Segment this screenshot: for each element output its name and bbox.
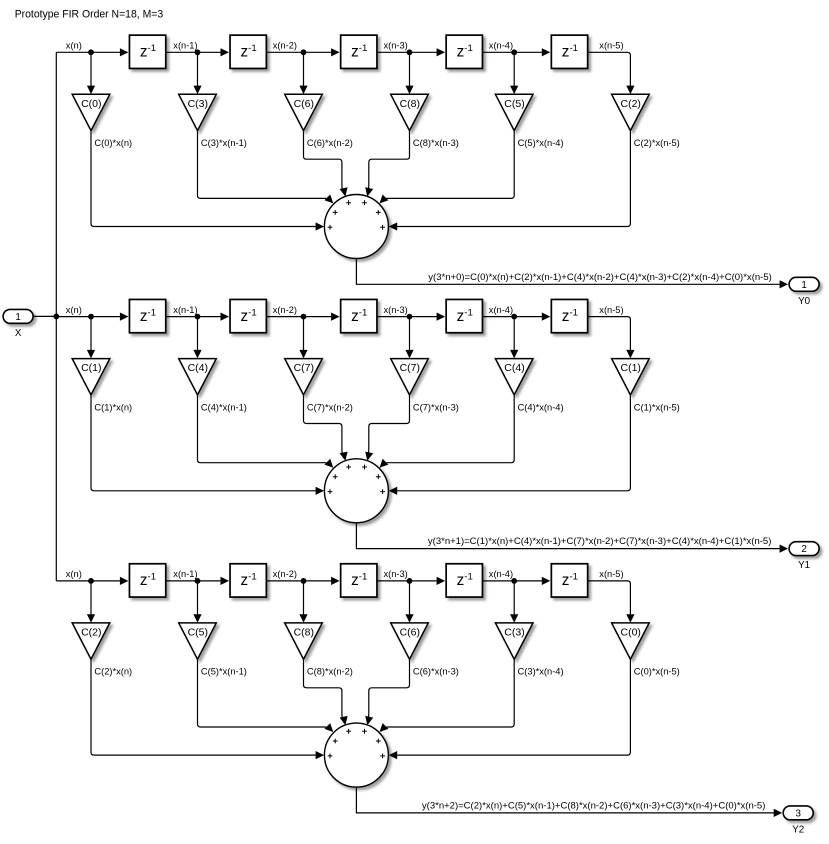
node x(n-1) tap row1 bbox=[195, 49, 201, 55]
node x(n) tap row1 bbox=[88, 49, 94, 55]
svg-text:C(8): C(8) bbox=[400, 98, 420, 110]
svg-text:y(3*n+2)=C(2)*x(n)+C(5)*x(n-1): y(3*n+2)=C(2)*x(n)+C(5)*x(n-1)+C(8)*x(n-… bbox=[422, 800, 766, 810]
svg-text:C(5)*x(n-4): C(5)*x(n-4) bbox=[518, 138, 564, 148]
gain triangle C(1) row2 bbox=[72, 359, 110, 395]
svg-text:C(4)*x(n-4): C(4)*x(n-4) bbox=[518, 402, 564, 412]
wire: row1 tap down into gain C(0) bbox=[87, 52, 95, 94]
svg-text:C(5): C(5) bbox=[188, 627, 208, 639]
gain triangle C(0) row1 bbox=[72, 94, 110, 130]
wire: row1 delay Z4 output to delay Z5 bbox=[483, 48, 551, 56]
svg-text:x(n-3): x(n-3) bbox=[384, 569, 408, 579]
wire: row3 tap down into gain C(3) bbox=[510, 581, 518, 623]
delay block z^-1 #1 row3 bbox=[129, 564, 165, 597]
svg-text:C(3): C(3) bbox=[504, 627, 524, 639]
wire: row2 delay Z2 output to delay Z3 bbox=[266, 313, 339, 321]
svg-text:C(5)*x(n-1): C(5)*x(n-1) bbox=[201, 667, 247, 677]
wire: row1 source line into delay Z1 bbox=[56, 48, 128, 56]
svg-text:x(n-3): x(n-3) bbox=[384, 41, 408, 51]
svg-text:C(0): C(0) bbox=[81, 98, 101, 110]
svg-text:C(4): C(4) bbox=[188, 362, 208, 374]
svg-text:C(1): C(1) bbox=[81, 362, 101, 374]
svg-text:C(3): C(3) bbox=[188, 98, 208, 110]
wire: row1 delay Z2 output to delay Z3 bbox=[266, 48, 339, 56]
wire: gain C(6) output to sum (top-right) row3 bbox=[365, 659, 409, 725]
svg-text:C(2)*x(n): C(2)*x(n) bbox=[94, 667, 132, 677]
delay block z^-1 #4 row3 bbox=[446, 564, 482, 597]
delay block z^-1 #5 row3 bbox=[551, 564, 587, 597]
gain triangle C(7) row2 bbox=[285, 359, 323, 395]
node x(n-3) tap row3 bbox=[407, 578, 413, 584]
wire: gain C(2) output to sum (left horizontal) row3 bbox=[91, 659, 324, 759]
wire: gain C(7) output to sum (top-right) row2 bbox=[365, 395, 409, 461]
wire: gain C(4) output to sum (upper-right diagonal) row2 bbox=[380, 395, 515, 468]
svg-text:x(n): x(n) bbox=[66, 569, 82, 579]
svg-text:x(n-5): x(n-5) bbox=[599, 41, 623, 51]
delay block z^-1 #1 row1 bbox=[129, 35, 165, 68]
svg-text:3: 3 bbox=[795, 808, 801, 819]
wire: row3 source line into delay Z1 bbox=[56, 577, 128, 585]
sum block S1 bbox=[324, 195, 388, 259]
wire: gain C(6) output to sum (top-left) row1 bbox=[304, 131, 348, 197]
wire: row2 delay Z5 output elbow down to gain C(1) bbox=[588, 317, 635, 359]
svg-text:Y0: Y0 bbox=[798, 296, 811, 307]
outport 3 (Y2) bbox=[783, 806, 813, 820]
delay block z^-1 #3 row1 bbox=[341, 35, 377, 68]
gain triangle C(6) row1 bbox=[285, 94, 323, 130]
svg-text:x(n-1): x(n-1) bbox=[173, 569, 197, 579]
wire: row2 tap down into gain C(1) bbox=[87, 317, 95, 359]
svg-text:x(n-5): x(n-5) bbox=[599, 305, 623, 315]
wire: row2 tap down into gain C(7) bbox=[405, 317, 413, 359]
wire: row1 delay Z3 output to delay Z4 bbox=[377, 48, 445, 56]
svg-text:C(2): C(2) bbox=[620, 98, 640, 110]
wire: row3 delay Z2 output to delay Z3 bbox=[266, 577, 339, 585]
wire: gain C(7) output to sum (top-left) row2 bbox=[304, 395, 348, 461]
wire: row3 tap down into gain C(2) bbox=[87, 581, 95, 623]
node x(n-3) tap row1 bbox=[407, 49, 413, 55]
delay block z^-1 #2 row2 bbox=[230, 299, 266, 332]
svg-text:Y2: Y2 bbox=[792, 825, 804, 836]
svg-text:x(n-2): x(n-2) bbox=[273, 41, 297, 51]
gain triangle C(0) row3 bbox=[612, 623, 650, 659]
node x(n) tap row2 bbox=[88, 314, 94, 320]
svg-text:x(n): x(n) bbox=[66, 41, 82, 51]
wire: row2 source line into delay Z1 bbox=[56, 313, 128, 321]
wire: row1 delay Z1 output to delay Z2 bbox=[166, 48, 229, 56]
svg-text:C(8)*x(n-3): C(8)*x(n-3) bbox=[413, 138, 459, 148]
wire: row3 tap down into gain C(5) bbox=[193, 581, 201, 623]
svg-text:Y1: Y1 bbox=[798, 560, 810, 571]
svg-text:C(3)*x(n-4): C(3)*x(n-4) bbox=[518, 667, 564, 677]
wire: row3 tap down into gain C(6) bbox=[405, 581, 413, 623]
sum block S3 bbox=[324, 723, 388, 787]
svg-text:C(2)*x(n-5): C(2)*x(n-5) bbox=[634, 138, 680, 148]
sum block S2 bbox=[324, 459, 388, 523]
wire: sum S3 output to outport 3 row3 bbox=[356, 788, 782, 817]
wire: gain C(2) output to sum (right horizontal) row1 bbox=[389, 131, 631, 231]
gain triangle C(4) row2 bbox=[179, 359, 217, 395]
svg-text:C(1)*x(n): C(1)*x(n) bbox=[94, 402, 132, 412]
svg-text:1: 1 bbox=[15, 312, 20, 323]
gain triangle C(5) row3 bbox=[179, 623, 217, 659]
node: bus junction at row2 bbox=[53, 314, 59, 320]
delay block z^-1 #4 row2 bbox=[446, 299, 482, 332]
delay block z^-1 #5 row2 bbox=[551, 299, 587, 332]
svg-text:x(n): x(n) bbox=[66, 305, 82, 315]
outport 1 (Y0) bbox=[789, 277, 819, 291]
wire: row1 tap down into gain C(8) bbox=[405, 52, 413, 94]
wire: row2 tap down into gain C(7) bbox=[299, 317, 307, 359]
svg-text:y(3*n+0)=C(0)*x(n)+C(2)*x(n-1): y(3*n+0)=C(0)*x(n)+C(2)*x(n-1)+C(4)*x(n-… bbox=[428, 272, 772, 282]
svg-text:1: 1 bbox=[801, 280, 806, 291]
gain triangle C(6) row3 bbox=[391, 623, 429, 659]
svg-text:x(n-3): x(n-3) bbox=[384, 305, 408, 315]
svg-text:C(6): C(6) bbox=[400, 627, 420, 639]
gain triangle C(1) row2 bbox=[612, 359, 650, 395]
wire: row2 tap down into gain C(4) bbox=[193, 317, 201, 359]
wire: row1 delay Z5 output elbow down to gain C(2) bbox=[588, 52, 635, 94]
wire: gain C(0) output to sum (left horizontal) row1 bbox=[91, 131, 324, 231]
svg-text:C(8): C(8) bbox=[294, 627, 314, 639]
delay block z^-1 #4 row1 bbox=[446, 35, 482, 68]
delay block z^-1 #1 row2 bbox=[129, 299, 165, 332]
svg-text:X: X bbox=[15, 328, 22, 339]
svg-text:x(n-2): x(n-2) bbox=[273, 569, 297, 579]
delay block z^-1 #2 row3 bbox=[230, 564, 266, 597]
wire: gain C(8) output to sum (top-left) row3 bbox=[304, 659, 348, 725]
wire: vertical source bus bbox=[55, 52, 57, 581]
node x(n-4) tap row1 bbox=[511, 49, 517, 55]
gain triangle C(2) row3 bbox=[72, 623, 110, 659]
svg-text:x(n-1): x(n-1) bbox=[173, 305, 197, 315]
wire: row3 delay Z4 output to delay Z5 bbox=[483, 577, 551, 585]
svg-text:x(n-5): x(n-5) bbox=[599, 569, 623, 579]
wire: row2 delay Z1 output to delay Z2 bbox=[166, 313, 229, 321]
gain triangle C(4) row2 bbox=[495, 359, 533, 395]
svg-text:2: 2 bbox=[801, 544, 806, 555]
svg-text:C(0)*x(n): C(0)*x(n) bbox=[94, 138, 132, 148]
node x(n) tap row3 bbox=[88, 578, 94, 584]
svg-text:C(1)*x(n-5): C(1)*x(n-5) bbox=[634, 402, 680, 412]
wire: row3 tap down into gain C(8) bbox=[299, 581, 307, 623]
node x(n-3) tap row2 bbox=[407, 314, 413, 320]
node x(n-2) tap row1 bbox=[301, 49, 307, 55]
wire: gain C(3) output to sum (upper-left diagonal) row1 bbox=[198, 131, 334, 204]
svg-text:C(4)*x(n-1): C(4)*x(n-1) bbox=[201, 402, 247, 412]
delay block z^-1 #5 row1 bbox=[551, 35, 587, 68]
svg-text:Prototype FIR Order N=18, M=3: Prototype FIR Order N=18, M=3 bbox=[15, 8, 164, 20]
wire: row3 delay Z3 output to delay Z4 bbox=[377, 577, 445, 585]
svg-text:C(6)*x(n-2): C(6)*x(n-2) bbox=[307, 138, 353, 148]
svg-text:x(n-2): x(n-2) bbox=[273, 305, 297, 315]
svg-text:x(n-4): x(n-4) bbox=[489, 305, 513, 315]
node x(n-2) tap row2 bbox=[301, 314, 307, 320]
wire: gain C(3) output to sum (upper-right diagonal) row3 bbox=[380, 659, 515, 732]
wire: inport X to bus bbox=[34, 315, 56, 317]
wire: gain C(4) output to sum (upper-left diagonal) row2 bbox=[198, 395, 334, 468]
wire: gain C(1) output to sum (right horizontal) row2 bbox=[389, 395, 631, 495]
node x(n-2) tap row3 bbox=[301, 578, 307, 584]
outport 2 (Y1) bbox=[789, 542, 819, 556]
svg-text:x(n-4): x(n-4) bbox=[489, 569, 513, 579]
wire: row3 delay Z1 output to delay Z2 bbox=[166, 577, 229, 585]
wire: row1 tap down into gain C(3) bbox=[193, 52, 201, 94]
inport 1 (X) bbox=[3, 309, 33, 323]
gain triangle C(3) row1 bbox=[179, 94, 217, 130]
wire: gain C(5) output to sum (upper-left diagonal) row3 bbox=[198, 659, 334, 732]
gain triangle C(2) row1 bbox=[612, 94, 650, 130]
svg-text:x(n-4): x(n-4) bbox=[489, 41, 513, 51]
svg-text:C(1): C(1) bbox=[620, 362, 640, 374]
wire: row1 tap down into gain C(6) bbox=[299, 52, 307, 94]
delay block z^-1 #3 row2 bbox=[341, 299, 377, 332]
wire: row2 delay Z4 output to delay Z5 bbox=[483, 313, 551, 321]
svg-text:C(5): C(5) bbox=[504, 98, 524, 110]
node x(n-1) tap row3 bbox=[195, 578, 201, 584]
svg-text:C(2): C(2) bbox=[81, 627, 101, 639]
wire: sum S1 output to outport 1 row1 bbox=[356, 259, 788, 288]
svg-text:C(6)*x(n-3): C(6)*x(n-3) bbox=[413, 667, 459, 677]
svg-text:C(7)*x(n-3): C(7)*x(n-3) bbox=[413, 402, 459, 412]
wire: gain C(5) output to sum (upper-right diagonal) row1 bbox=[380, 131, 515, 204]
svg-text:C(0)*x(n-5): C(0)*x(n-5) bbox=[634, 667, 680, 677]
wire: gain C(1) output to sum (left horizontal) row2 bbox=[91, 395, 324, 495]
svg-text:y(3*n+1)=C(1)*x(n)+C(4)*x(n-1): y(3*n+1)=C(1)*x(n)+C(4)*x(n-1)+C(7)*x(n-… bbox=[428, 536, 772, 546]
wire: row1 tap down into gain C(5) bbox=[510, 52, 518, 94]
gain triangle C(8) row3 bbox=[285, 623, 323, 659]
svg-text:C(3)*x(n-1): C(3)*x(n-1) bbox=[201, 138, 247, 148]
node x(n-1) tap row2 bbox=[195, 314, 201, 320]
gain triangle C(5) row1 bbox=[495, 94, 533, 130]
delay block z^-1 #2 row1 bbox=[230, 35, 266, 68]
svg-text:C(6): C(6) bbox=[294, 98, 314, 110]
wire: row3 delay Z5 output elbow down to gain C(0) bbox=[588, 581, 635, 623]
gain triangle C(3) row3 bbox=[495, 623, 533, 659]
svg-text:C(7): C(7) bbox=[294, 362, 314, 374]
wire: gain C(0) output to sum (right horizontal) row3 bbox=[389, 659, 631, 759]
svg-text:x(n-1): x(n-1) bbox=[173, 41, 197, 51]
svg-text:C(4): C(4) bbox=[504, 362, 524, 374]
svg-text:C(7): C(7) bbox=[400, 362, 420, 374]
gain triangle C(7) row2 bbox=[391, 359, 429, 395]
wire: row2 delay Z3 output to delay Z4 bbox=[377, 313, 445, 321]
delay block z^-1 #3 row3 bbox=[341, 564, 377, 597]
wire: gain C(8) output to sum (top-right) row1 bbox=[365, 131, 409, 197]
svg-text:C(8)*x(n-2): C(8)*x(n-2) bbox=[307, 667, 353, 677]
svg-text:C(7)*x(n-2): C(7)*x(n-2) bbox=[307, 402, 353, 412]
gain triangle C(8) row1 bbox=[391, 94, 429, 130]
svg-text:C(0): C(0) bbox=[620, 627, 640, 639]
node x(n-4) tap row3 bbox=[511, 578, 517, 584]
wire: sum S2 output to outport 2 row2 bbox=[356, 524, 788, 553]
wire: row2 tap down into gain C(4) bbox=[510, 317, 518, 359]
node x(n-4) tap row2 bbox=[511, 314, 517, 320]
